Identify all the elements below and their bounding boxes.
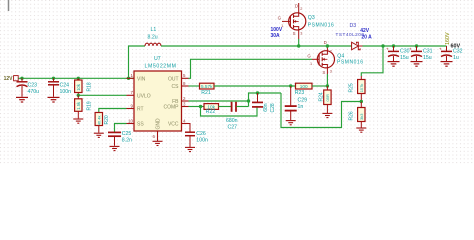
svg-text:D: D: [324, 40, 327, 45]
svg-text:R24: R24: [319, 92, 325, 101]
node junction C24: [52, 77, 55, 80]
svg-text:CS: CS: [172, 84, 180, 90]
ground (R20): [94, 133, 104, 137]
svg-text:RT: RT: [137, 107, 144, 113]
svg-text:12V: 12V: [4, 76, 14, 82]
svg-text:2: 2: [300, 7, 302, 11]
inductor L1: [145, 27, 161, 46]
pin UVLO 7: [127, 94, 135, 96]
capacitor C26: [182, 124, 208, 148]
wire output to divider: [361, 46, 383, 76]
pin OUT 5: [182, 77, 189, 79]
wire FB: [189, 100, 249, 102]
svg-text:C24: C24: [60, 82, 70, 88]
svg-text:680n: 680n: [226, 118, 238, 124]
svg-text:20 A: 20 A: [361, 34, 372, 40]
diode D3: [336, 23, 365, 50]
svg-text:1n: 1n: [298, 104, 304, 110]
ground (C29): [286, 121, 296, 125]
svg-text:PSMN016: PSMN016: [337, 59, 363, 65]
resistor R21: [200, 83, 215, 96]
resistor R26: [348, 102, 365, 128]
D3 rating label: [360, 28, 372, 40]
capacitor C23: [17, 78, 40, 97]
pin VIN 1: [127, 77, 135, 79]
resistor R25: [348, 76, 365, 102]
node junction UVLO divider: [77, 94, 80, 97]
svg-text:8.2u: 8.2u: [148, 34, 158, 40]
svg-text:1u: 1u: [453, 55, 459, 61]
ground (C32): [441, 62, 453, 67]
node junction C29 tap: [289, 84, 292, 87]
capacitor C28: [252, 93, 276, 113]
wire OUT to gate: [189, 59, 313, 78]
node junction FB: [247, 99, 250, 102]
svg-text:100: 100: [300, 84, 308, 89]
svg-text:05R: 05R: [325, 94, 330, 101]
svg-text:3k3: 3k3: [359, 113, 364, 120]
node junction sense: [326, 84, 329, 87]
svg-text:SS: SS: [137, 122, 144, 128]
svg-text:S: S: [293, 31, 296, 36]
wire Q4 source down: [326, 74, 328, 86]
svg-text:C29: C29: [298, 97, 308, 103]
svg-text:R23: R23: [295, 90, 305, 96]
resistor R24: [319, 86, 332, 113]
op-amp/controller U7 LM5022MM: [127, 56, 189, 141]
resistor R18: [75, 78, 93, 95]
ground (R19): [73, 119, 83, 123]
svg-text:30A: 30A: [271, 33, 281, 39]
resistor R20: [95, 109, 126, 133]
svg-text:GND: GND: [156, 118, 162, 130]
node junction Q3 source: [297, 44, 300, 47]
wire R22 to C27: [219, 106, 232, 108]
svg-text:1.5k: 1.5k: [76, 101, 81, 110]
svg-text:Q3: Q3: [308, 15, 315, 21]
Q3 rating label: [271, 27, 283, 39]
wire switch-node rail: [161, 45, 352, 47]
resistor R19: [75, 95, 93, 118]
svg-text:42V: 42V: [360, 28, 370, 34]
svg-text:R26: R26: [348, 111, 354, 120]
capacitor C27: [226, 102, 238, 131]
svg-text:R19: R19: [87, 101, 93, 110]
node junction R18: [77, 77, 80, 80]
svg-text:R25: R25: [348, 83, 354, 92]
svg-text:2: 2: [330, 49, 332, 53]
pin GND 6: [157, 131, 159, 141]
svg-text:C31: C31: [423, 49, 433, 55]
wire Q3 source to rail: [298, 39, 300, 46]
wire COMP lower branch: [201, 107, 258, 117]
node junction VIN/L1: [127, 77, 130, 80]
svg-text:C27: C27: [228, 125, 238, 131]
capacitor C30: [386, 46, 410, 61]
wire R23 to sense node: [312, 85, 327, 87]
wire output rail: [363, 45, 447, 47]
svg-text:R18: R18: [87, 82, 93, 91]
svg-text:D: D: [295, 3, 298, 8]
svg-text:R20: R20: [104, 115, 110, 124]
svg-text:100n: 100n: [60, 89, 72, 95]
wire C27 to FB riser: [236, 106, 248, 108]
wire L1 riser: [129, 46, 146, 78]
svg-text:3: 3: [330, 70, 332, 74]
pin CS 8: [182, 85, 189, 87]
wire COMP: [189, 106, 205, 108]
svg-text:COMP: COMP: [164, 105, 180, 111]
svg-text:C25: C25: [122, 131, 132, 137]
node junction C31: [415, 44, 418, 47]
capacitor C24: [48, 78, 71, 97]
capacitor C25: [108, 131, 132, 146]
ground (U7 GND): [153, 141, 163, 145]
12V supply label: [4, 76, 19, 82]
transistor Q4: [307, 40, 363, 75]
ground (R26): [356, 128, 366, 132]
node junction COMP: [199, 105, 202, 108]
node junction divider feed: [381, 44, 384, 47]
svg-text:15u: 15u: [423, 55, 432, 61]
wire UVLO: [78, 94, 126, 96]
wire SS: [115, 124, 127, 133]
svg-text:VCC: VCC: [168, 122, 179, 128]
transistor Q3: [278, 3, 334, 39]
pin VCC 4: [182, 123, 189, 125]
pin FB 2: [182, 100, 189, 102]
svg-text:G: G: [307, 53, 311, 58]
pin SS 10: [127, 123, 135, 125]
frame tick: [8, 0, 10, 11]
svg-text:OUT: OUT: [168, 76, 179, 82]
svg-text:8.2n: 8.2n: [122, 138, 132, 144]
wire FB loop: [281, 93, 361, 128]
capacitor C32: [439, 46, 463, 61]
svg-text:60V: 60V: [451, 44, 461, 50]
wire 12V rail: [19, 77, 135, 79]
svg-text:R22: R22: [206, 109, 216, 115]
svg-text:157k: 157k: [359, 84, 364, 93]
ground (C30): [388, 62, 400, 67]
svg-text:10: 10: [128, 118, 133, 123]
svg-text:S: S: [322, 70, 325, 75]
ground (C25): [110, 146, 120, 150]
svg-text:L1: L1: [151, 27, 157, 33]
svg-text:3: 3: [300, 32, 302, 36]
svg-text:15u: 15u: [400, 55, 409, 61]
pin RT 9: [127, 108, 135, 110]
svg-text:LM5022MM: LM5022MM: [145, 63, 177, 69]
svg-text:PSMN016: PSMN016: [308, 23, 334, 29]
svg-text:46.4k: 46.4k: [97, 116, 102, 126]
ground (C26): [185, 147, 195, 151]
ground (C31): [411, 62, 423, 67]
svg-text:1: 1: [310, 62, 312, 66]
svg-text:C32: C32: [453, 49, 463, 55]
svg-text:C23: C23: [28, 82, 38, 88]
node junction divider tap: [360, 100, 363, 103]
ground (R24): [322, 113, 332, 117]
resistor R23: [295, 83, 312, 96]
svg-text:U7: U7: [154, 56, 161, 62]
node junction Q4 drain: [326, 44, 329, 47]
ground (C23): [16, 97, 28, 102]
svg-text:5.57k: 5.57k: [201, 84, 213, 89]
resistor R22: [204, 104, 219, 116]
svg-text:G: G: [278, 16, 282, 21]
svg-text:470u: 470u: [28, 89, 40, 95]
node junction C23: [20, 77, 23, 80]
capacitor C31: [409, 46, 433, 61]
wire CS to R23: [214, 85, 296, 87]
node junction C30: [392, 44, 395, 47]
svg-text:D3: D3: [350, 23, 357, 29]
svg-text:R21: R21: [201, 90, 211, 96]
ground (C24): [48, 97, 60, 102]
capacitor C29: [285, 86, 307, 120]
svg-text:68n: 68n: [263, 103, 269, 112]
svg-text:100n: 100n: [196, 138, 208, 144]
svg-text:10k: 10k: [76, 83, 81, 91]
wire CS: [189, 85, 200, 87]
svg-text:C28: C28: [270, 103, 276, 112]
svg-text:VIN: VIN: [137, 76, 146, 82]
svg-text:UVLO: UVLO: [137, 93, 151, 99]
node junction C28 top: [256, 91, 259, 94]
pin COMP 3: [182, 106, 189, 108]
wire FB riser: [249, 93, 282, 107]
svg-text:C26: C26: [196, 131, 206, 137]
